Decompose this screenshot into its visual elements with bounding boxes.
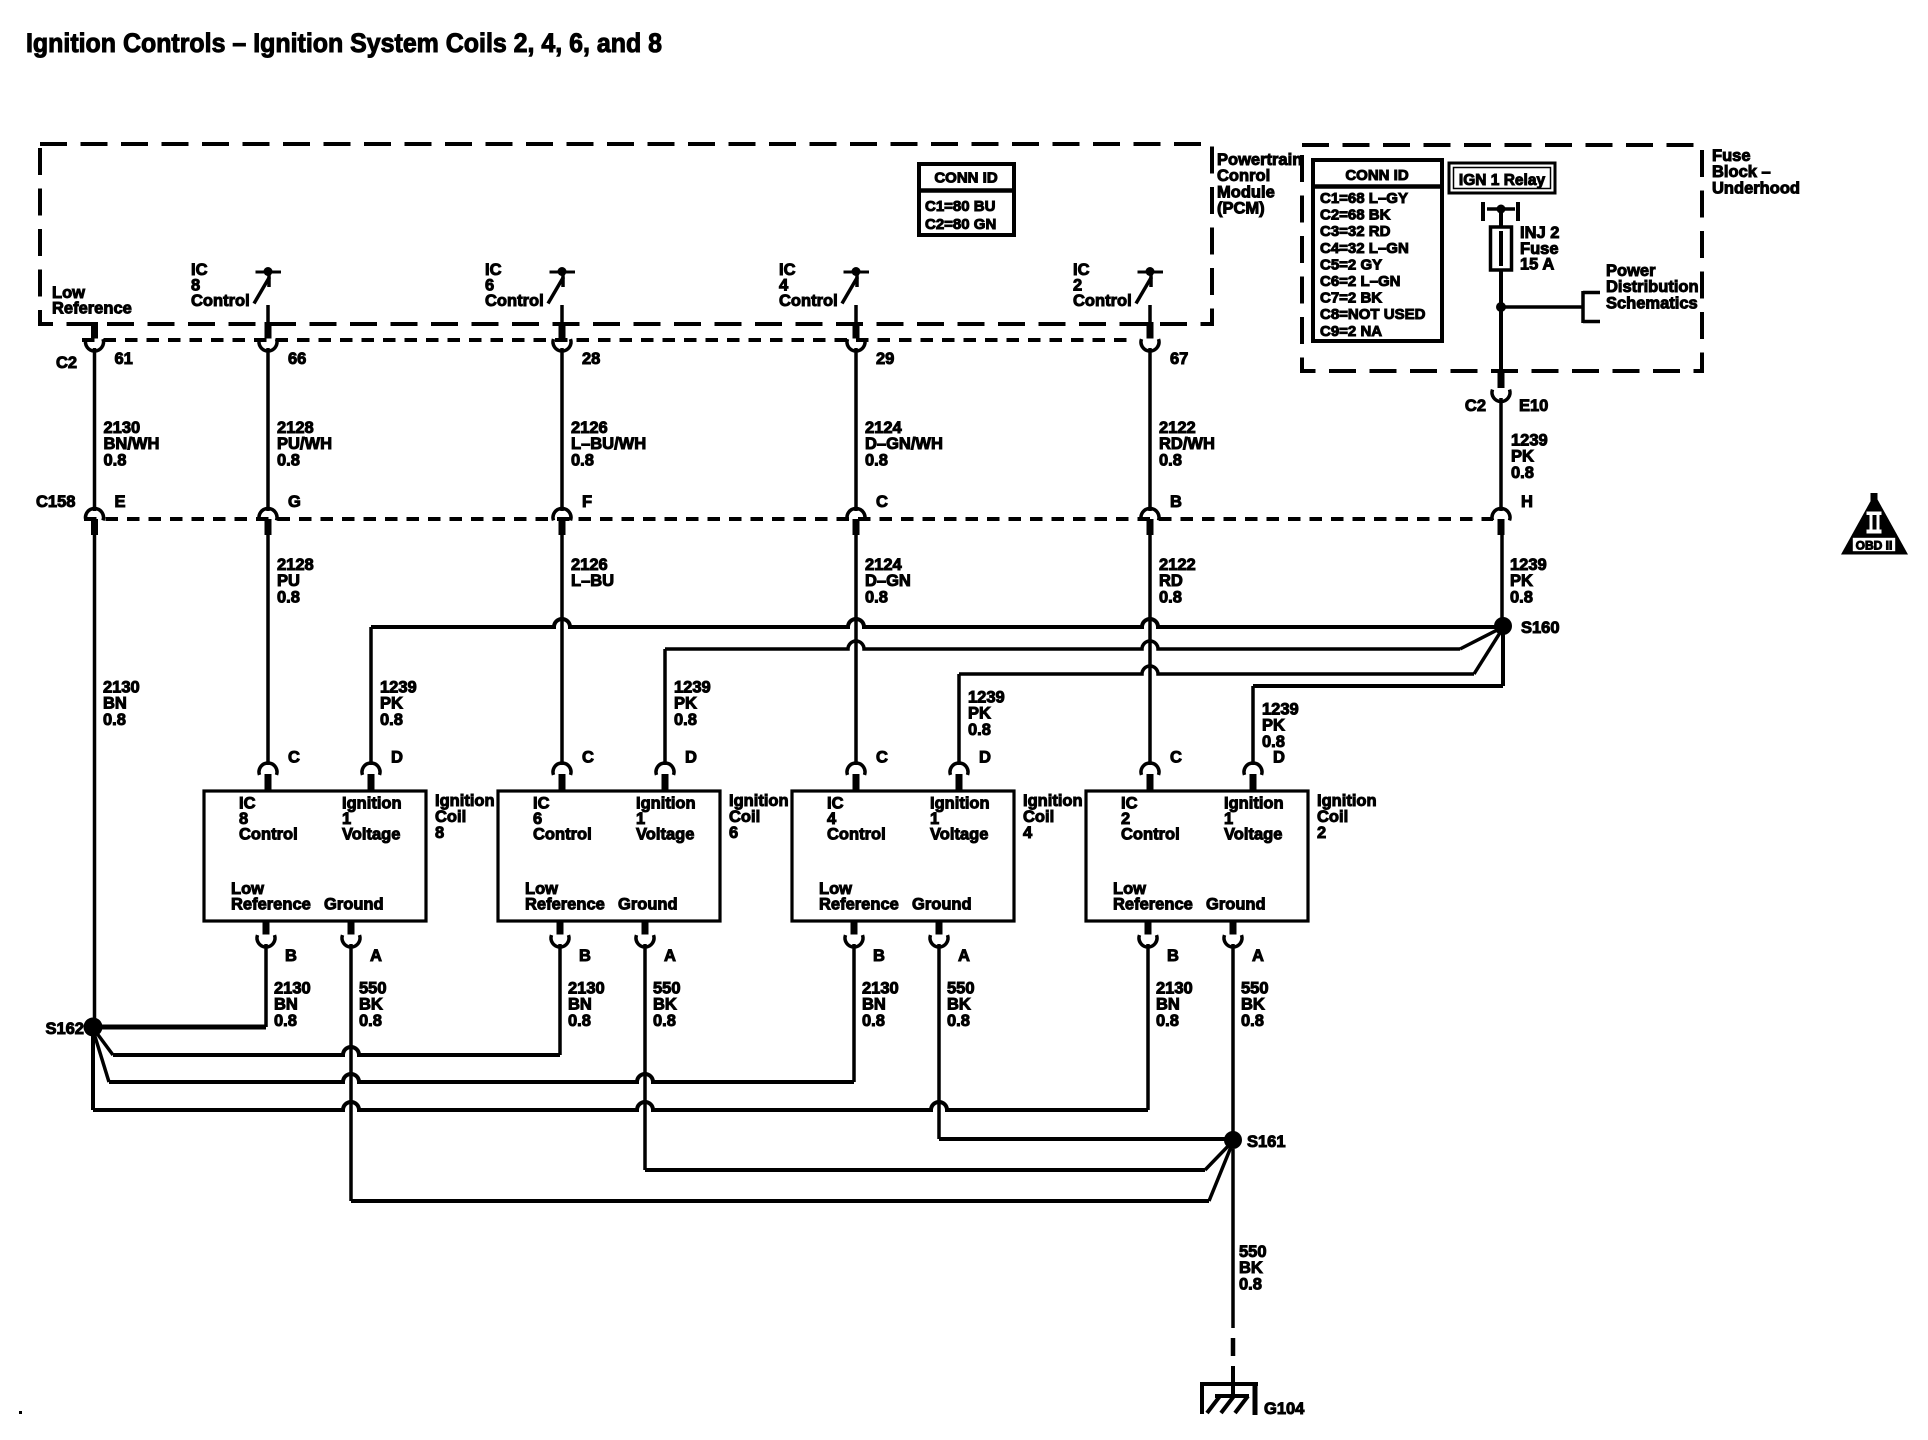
svg-text:Control: Control	[485, 292, 544, 310]
label IC 4 Control (PCM)	[779, 261, 838, 310]
wire coil 8 ground to S161	[351, 1142, 1233, 1201]
svg-text:0.8: 0.8	[947, 1012, 970, 1030]
svg-text:(PCM): (PCM)	[1217, 200, 1265, 218]
wire 1239 PK S160 to coil 6 D	[665, 627, 1503, 765]
svg-text:Reference: Reference	[525, 896, 605, 914]
connector C2 pin 29	[847, 322, 894, 368]
svg-text:0.8: 0.8	[865, 588, 888, 606]
wire 2130 BN coil 8 pin B	[274, 980, 311, 1030]
svg-text:A: A	[1252, 947, 1264, 965]
switch IC 6 Control driver in PCM	[548, 267, 575, 325]
wire 550 BK coil 6 pin A	[653, 980, 681, 1030]
wire 2130 BN coil 6 pin B	[568, 980, 605, 1030]
svg-text:0.8: 0.8	[653, 1012, 676, 1030]
junction node on fuse output	[1496, 302, 1506, 312]
svg-text:IGN 1 Relay: IGN 1 Relay	[1459, 172, 1546, 189]
svg-text:0.8: 0.8	[1241, 1012, 1264, 1030]
PCM CONN ID table	[919, 164, 1014, 235]
wire 2130 BN coil 2 pin B	[1156, 980, 1193, 1030]
svg-text:CONN ID: CONN ID	[1345, 167, 1409, 184]
svg-text:15 A: 15 A	[1520, 256, 1554, 274]
svg-text:C6=2 L–GN: C6=2 L–GN	[1320, 273, 1400, 290]
ignition coil 4 box	[792, 791, 1014, 921]
svg-text:0.8: 0.8	[568, 1012, 591, 1030]
svg-text:6: 6	[729, 824, 738, 842]
svg-text:Voltage: Voltage	[930, 826, 988, 844]
coil 2 pin C connector	[1141, 749, 1182, 792]
label Ignition Coil 8	[435, 792, 495, 842]
svg-text:S162: S162	[45, 1020, 84, 1038]
wire 2124 D–GN to ignition coil	[856, 535, 911, 765]
coil 2 pin D connector	[1244, 749, 1285, 792]
svg-text:C9=2 NA: C9=2 NA	[1320, 323, 1382, 340]
wire 2130 BN coil 4 pin B	[862, 980, 899, 1030]
svg-text:F: F	[582, 493, 592, 511]
svg-text:8: 8	[435, 824, 444, 842]
IGN 1 Relay label box	[1449, 163, 1555, 193]
svg-text:Ground: Ground	[1206, 896, 1266, 914]
svg-text:C1=80 BU: C1=80 BU	[925, 198, 995, 215]
svg-text:B: B	[1170, 493, 1182, 511]
svg-text:D: D	[391, 749, 403, 767]
svg-text:C2=68 BK: C2=68 BK	[1320, 207, 1391, 224]
svg-text:29: 29	[876, 350, 894, 368]
wire 2122 RD/WH	[1150, 348, 1215, 511]
svg-text:A: A	[958, 947, 970, 965]
power distribution schematics reference	[1501, 291, 1600, 323]
svg-text:67: 67	[1170, 350, 1188, 368]
svg-text:C2: C2	[1465, 397, 1486, 415]
svg-text:Reference: Reference	[231, 896, 311, 914]
wire 550 BK coil 8 pin A	[359, 980, 387, 1030]
Fuse block CONN ID table	[1313, 160, 1442, 341]
svg-text:C7=2 BK: C7=2 BK	[1320, 290, 1382, 307]
svg-text:D: D	[1273, 749, 1285, 767]
svg-text:Control: Control	[827, 826, 886, 844]
ground G104	[1200, 1384, 1305, 1418]
coil 6 pin D connector	[656, 749, 697, 792]
svg-text:Ground: Ground	[618, 896, 678, 914]
svg-text:D: D	[979, 749, 991, 767]
svg-text:2: 2	[1317, 824, 1326, 842]
svg-text:E: E	[115, 493, 126, 511]
wire coil 2 A drop	[1231, 944, 1235, 1140]
svg-text:Control: Control	[779, 292, 838, 310]
svg-text:61: 61	[115, 350, 133, 368]
wire 550 BK coil 2 pin A	[1241, 980, 1269, 1030]
connector C2 pin E10 fuse block	[1465, 369, 1548, 415]
wire coil 6 A drop	[643, 944, 647, 1170]
wire fuse output to connector E10	[1499, 307, 1503, 371]
svg-text:G: G	[288, 493, 301, 511]
label Ignition Coil 6	[729, 792, 789, 842]
wire 1239 PK C158 H to S160	[1502, 535, 1547, 626]
svg-text:E10: E10	[1519, 397, 1548, 415]
wire coil 4 ground to S161	[939, 1137, 1233, 1141]
svg-text:66: 66	[288, 350, 306, 368]
label Low Reference (PCM pin)	[52, 284, 132, 318]
svg-text:0.8: 0.8	[968, 721, 991, 739]
svg-text:0.8: 0.8	[1159, 451, 1182, 469]
svg-text:Reference: Reference	[52, 300, 132, 318]
wire S162 to coil 8 B	[93, 1025, 266, 1030]
svg-text:C4=32 L–GN: C4=32 L–GN	[1320, 240, 1409, 257]
svg-text:0.8: 0.8	[1511, 464, 1534, 482]
svg-text:28: 28	[582, 350, 600, 368]
svg-text:Voltage: Voltage	[1224, 826, 1282, 844]
svg-text:Ground: Ground	[324, 896, 384, 914]
svg-text:C3=32 RD: C3=32 RD	[1320, 223, 1391, 240]
svg-text:Underhood: Underhood	[1712, 179, 1800, 197]
svg-text:B: B	[873, 947, 885, 965]
wire 1239 PK S160 to coil 4 D	[959, 628, 1503, 765]
connector C158 pin E	[86, 493, 126, 535]
wire 550 BK S161 to G104	[1233, 1149, 1267, 1397]
svg-text:S160: S160	[1521, 619, 1560, 637]
svg-text:0.8: 0.8	[274, 1012, 297, 1030]
ignition coil 6 box	[498, 791, 720, 921]
wire coil 6 ground to S161	[645, 1141, 1233, 1170]
Fuse Block dashed box	[1302, 145, 1702, 371]
svg-text:0.8: 0.8	[674, 711, 697, 729]
svg-text:OBD II: OBD II	[1856, 539, 1893, 553]
svg-text:Reference: Reference	[819, 896, 899, 914]
svg-text:B: B	[579, 947, 591, 965]
switch IC 8 Control driver in PCM	[254, 267, 281, 325]
wire 2126 L–BU to ignition coil	[562, 535, 614, 765]
wire 2128 PU/WH	[268, 348, 332, 511]
svg-text:Schematics: Schematics	[1606, 294, 1698, 312]
svg-text:Control: Control	[1121, 826, 1180, 844]
svg-text:0.8: 0.8	[103, 711, 126, 729]
wire coil 2 B drop	[1146, 944, 1150, 1110]
svg-text:Control: Control	[191, 292, 250, 310]
svg-text:H: H	[1521, 493, 1533, 511]
svg-text:G104: G104	[1264, 1400, 1305, 1418]
svg-text:0.8: 0.8	[862, 1012, 885, 1030]
svg-text:0.8: 0.8	[380, 711, 403, 729]
connector C2 pin 61	[86, 322, 133, 368]
svg-text:Control: Control	[1073, 292, 1132, 310]
wire 550 BK coil 4 pin A	[947, 980, 975, 1030]
wire 1239 PK E10 to C158 H	[1501, 398, 1548, 511]
label Ignition Coil 2	[1317, 792, 1377, 842]
svg-text:0.8: 0.8	[1156, 1012, 1179, 1030]
label IC 2 Control (PCM)	[1073, 261, 1132, 310]
label IC 6 Control (PCM)	[485, 261, 544, 310]
svg-text:Voltage: Voltage	[342, 826, 400, 844]
label INJ 2 Fuse 15 A	[1520, 224, 1559, 274]
coil 4 pin C connector	[847, 749, 888, 792]
svg-text:B: B	[1167, 947, 1179, 965]
svg-text:Voltage: Voltage	[636, 826, 694, 844]
PCM connector row C2 dotted line	[82, 338, 1135, 342]
connector C158 pin H	[1492, 493, 1533, 535]
svg-text:C158: C158	[36, 493, 75, 511]
svg-text:0.8: 0.8	[1510, 588, 1533, 606]
svg-text:0.8: 0.8	[1239, 1275, 1262, 1293]
svg-text:0.8: 0.8	[277, 451, 300, 469]
svg-text:C1=68 L–GY: C1=68 L–GY	[1320, 190, 1408, 207]
svg-text:C: C	[876, 493, 888, 511]
ignition coil 8 box	[204, 791, 426, 921]
wire coil 8 A drop	[349, 944, 353, 1201]
coil 6 pin A connector	[636, 921, 676, 965]
svg-text:CONN ID: CONN ID	[934, 170, 998, 187]
fuse INJ 2 15 A	[1491, 227, 1512, 307]
wire 1239 PK S160 to coil 8 D	[371, 619, 1503, 765]
svg-text:C: C	[1170, 749, 1182, 767]
wire S162 to coil 6 B	[93, 1028, 560, 1055]
wire 2122 RD to ignition coil	[1150, 535, 1196, 765]
coil 6 pin B connector	[551, 921, 591, 965]
coil 8 pin C connector	[259, 749, 300, 792]
svg-text:C2=80 GN: C2=80 GN	[925, 216, 996, 233]
svg-text:C: C	[876, 749, 888, 767]
connector C158 pin G	[259, 493, 301, 535]
coil 6 pin C connector	[553, 749, 594, 792]
label Power Distribution Schematics	[1606, 262, 1699, 312]
wire S162 to coil 4 B	[93, 1030, 854, 1082]
switch IC 4 Control driver in PCM	[842, 267, 869, 325]
wire S162 to coil 2 B	[93, 1027, 1148, 1110]
svg-text:S161: S161	[1247, 1133, 1286, 1151]
wire coil 8 B drop	[264, 944, 268, 1027]
coil 4 pin D connector	[950, 749, 991, 792]
svg-text:Reference: Reference	[1113, 896, 1193, 914]
svg-text:0.8: 0.8	[104, 451, 127, 469]
connector C158 pin B	[1141, 493, 1182, 535]
coil 4 pin A connector	[930, 921, 970, 965]
wire 2130 BN/WH	[95, 348, 160, 511]
coil 8 pin D connector	[362, 749, 403, 792]
svg-text:D: D	[685, 749, 697, 767]
wire coil 6 B drop	[558, 944, 562, 1055]
coil 8 pin A connector	[342, 921, 382, 965]
svg-text:C2: C2	[56, 354, 77, 372]
svg-text:C: C	[288, 749, 300, 767]
svg-text:A: A	[370, 947, 382, 965]
svg-text:B: B	[285, 947, 297, 965]
connector C2 pin 66	[259, 322, 306, 368]
svg-text:L–BU: L–BU	[571, 572, 614, 590]
wire 1239 PK S160 to coil 2 D	[1253, 626, 1503, 765]
coil 8 pin B connector	[257, 921, 297, 965]
connector C2 pin 28	[553, 322, 600, 368]
connector C158 pin C	[847, 493, 888, 535]
C158 connector row dotted line	[84, 517, 1493, 521]
svg-text:C5=2 GY: C5=2 GY	[1320, 256, 1382, 273]
connector C158 pin F	[553, 493, 592, 535]
splice S162	[45, 1018, 102, 1039]
connector C2 pin 67	[1141, 322, 1188, 368]
label Ignition Coil 4	[1023, 792, 1083, 842]
label IC 8 Control (PCM)	[191, 261, 250, 310]
label Powertrain Conrol Module (PCM)	[1217, 151, 1302, 218]
svg-text:C8=NOT USED: C8=NOT USED	[1320, 306, 1426, 323]
splice S160	[1494, 617, 1560, 637]
svg-text:0.8: 0.8	[359, 1012, 382, 1030]
OBD II marker	[1841, 493, 1908, 555]
svg-text:Control: Control	[239, 826, 298, 844]
svg-text:A: A	[664, 947, 676, 965]
wire 2124 D–GN/WH	[856, 348, 943, 511]
svg-text:Ignition Controls – Ignition S: Ignition Controls – Ignition System Coil…	[26, 28, 662, 58]
wire 2126 L–BU/WH	[562, 348, 646, 511]
splice S161	[1224, 1131, 1286, 1151]
svg-text:C: C	[582, 749, 594, 767]
PCM module dashed box	[40, 144, 1212, 324]
wire coil 4 B drop	[852, 944, 856, 1082]
label Fuse Block - Underhood	[1712, 147, 1800, 197]
svg-text:0.8: 0.8	[1159, 588, 1182, 606]
svg-text:Control: Control	[533, 826, 592, 844]
wire 2130 BN to S162	[95, 535, 140, 1020]
wire 2128 PU to ignition coil	[268, 535, 314, 765]
wire coil 4 A drop	[937, 944, 941, 1139]
ignition coil 2 box	[1086, 791, 1308, 921]
svg-text:0.8: 0.8	[277, 588, 300, 606]
svg-text:0.8: 0.8	[865, 451, 888, 469]
coil 2 pin A connector	[1224, 921, 1264, 965]
svg-text:4: 4	[1023, 824, 1033, 842]
coil 4 pin B connector	[845, 921, 885, 965]
relay output pin	[1483, 202, 1518, 227]
svg-text:0.8: 0.8	[571, 451, 594, 469]
switch IC 2 Control driver in PCM	[1136, 267, 1163, 325]
page corner mark	[19, 1411, 22, 1414]
svg-text:Ground: Ground	[912, 896, 972, 914]
coil 2 pin B connector	[1139, 921, 1179, 965]
